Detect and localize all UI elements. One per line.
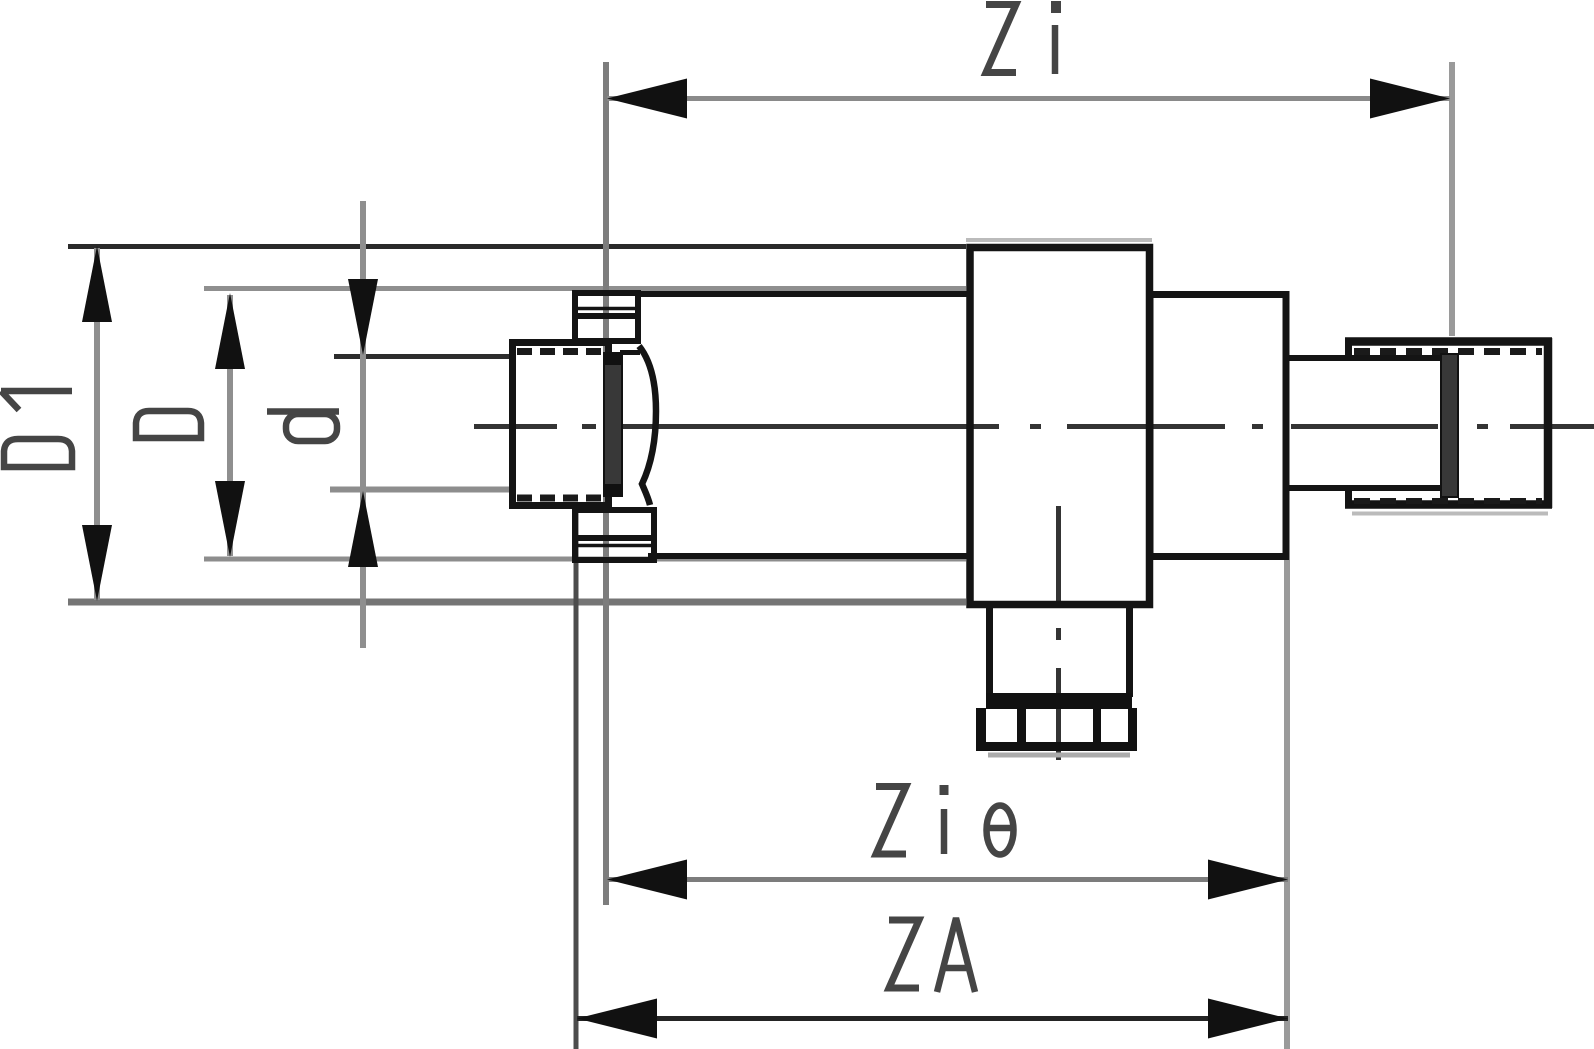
main tube bottom line: [648, 553, 970, 559]
Zi dimension line: [607, 96, 1450, 101]
union nut bell curve: [639, 346, 656, 505]
ZA dimension line: [577, 1016, 1288, 1021]
Zie ZA right extension line: [1284, 560, 1290, 1049]
label d rotated: [267, 412, 339, 442]
right mid section: [1150, 295, 1286, 557]
branch vertical centerline: [1056, 506, 1061, 760]
left spigot end band: [604, 353, 622, 496]
nut bottom shadow: [988, 753, 1130, 758]
block top halo: [966, 238, 1152, 242]
right tube top line: [1286, 355, 1445, 361]
branch right line: [1126, 608, 1133, 697]
D dimension line: [227, 295, 233, 556]
horizontal centerline: [474, 424, 1594, 429]
label D1 rotated: [1, 391, 72, 467]
left socket thread dashes top: [517, 348, 604, 355]
right threaded end shell: [1345, 337, 1552, 346]
label Zi: [986, 1, 1056, 74]
branch flange bar: [986, 693, 1132, 709]
right tube bottom line: [1286, 485, 1445, 491]
D1 top extension line: [68, 244, 966, 249]
Zi right extension line: [1449, 62, 1455, 336]
Zie dimension line: [607, 877, 1288, 882]
right socket end band: [1441, 354, 1458, 497]
left socket thread dashes bottom: [517, 495, 604, 502]
branch nut: [976, 742, 1137, 751]
left socket body: [513, 343, 609, 506]
d bottom extension line: [330, 487, 512, 493]
central block: [970, 248, 1150, 605]
branch left line: [986, 608, 993, 697]
D bottom extension line: [204, 557, 966, 562]
label ZA: [889, 918, 975, 992]
Zi left extension line: [603, 62, 609, 905]
D1 dimension line: [94, 248, 100, 600]
label D rotated: [136, 411, 201, 438]
right thread dashes bottom: [1354, 498, 1542, 504]
d dimension line: [360, 201, 366, 648]
D top extension line: [204, 286, 966, 291]
ZA left extension line: [574, 507, 579, 1049]
D1 bottom extension line: [68, 599, 966, 606]
label Zie: [876, 785, 1014, 855]
d top extension line: [334, 354, 512, 359]
union nut bottom tab: [575, 510, 654, 560]
union nut shoulder line: [620, 350, 640, 355]
right thread dashes top: [1354, 348, 1542, 355]
right shell bottom halo: [1352, 512, 1548, 516]
main tube top line: [636, 291, 970, 297]
union nut top tab: [575, 293, 638, 341]
